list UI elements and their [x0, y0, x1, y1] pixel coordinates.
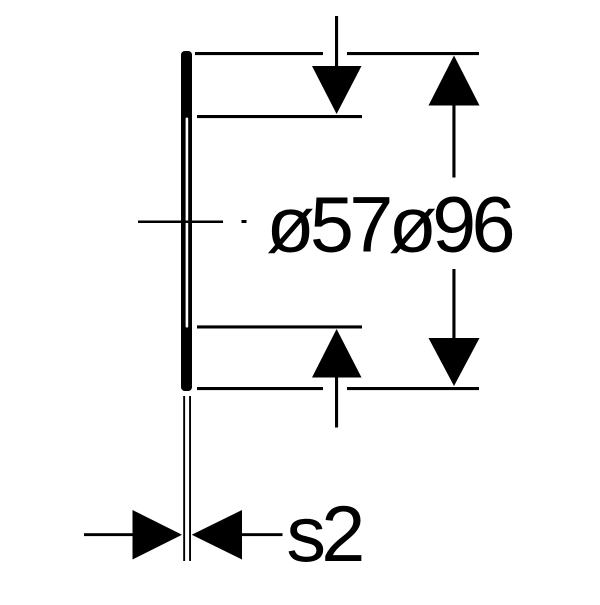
- dimension s2 left-pointing arrowhead: [192, 510, 242, 560]
- dimension ø96 lower stem: [452, 269, 455, 339]
- dimension ø57 bottom stem: [335, 377, 338, 428]
- dimension ø57 bottom arrowhead (up): [312, 329, 362, 378]
- dimension s2 left stem: [84, 533, 133, 536]
- svg-text:ø57ø96: ø57ø96: [266, 180, 512, 269]
- extension line ø96 top: [195, 52, 479, 55]
- extension line ø57 bottom: [197, 325, 362, 328]
- disc edge view (capsule body): [181, 51, 192, 391]
- sheet edge lines (thickness s2): [183, 396, 191, 561]
- dimension ø57 top stem: [335, 16, 338, 67]
- dimension s2 right stem: [241, 533, 283, 536]
- centerline mark: [138, 220, 247, 223]
- dimension ø96 top arrowhead (up): [429, 56, 480, 106]
- extension line ø96 bottom: [197, 387, 479, 390]
- dimension ø96 bottom arrowhead (down): [429, 338, 480, 386]
- dimension s2 right-pointing arrowhead: [133, 510, 183, 560]
- extension line ø57 top: [197, 115, 362, 118]
- dimension ø57 top arrowhead (down): [312, 66, 362, 114]
- svg-text:s2: s2: [286, 489, 362, 578]
- dimension ø96 upper stem: [452, 105, 455, 178]
